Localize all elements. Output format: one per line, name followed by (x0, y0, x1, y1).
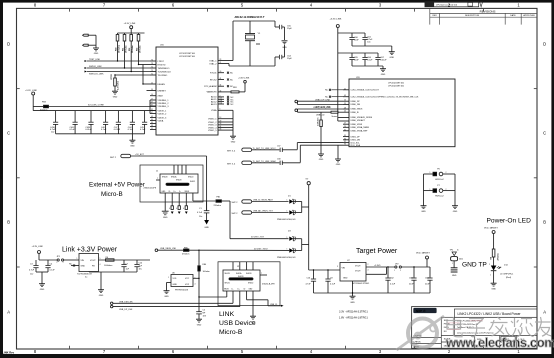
svg-text:57: 57 (151, 101, 153, 103)
svg-text:10uF: 10uF (354, 60, 359, 62)
svg-text:+3.3V_LINK: +3.3V_LINK (25, 90, 37, 92)
svg-text:78: 78 (151, 63, 153, 65)
svg-text:R51: R51 (122, 48, 124, 51)
svg-text:2: 2 (368, 264, 369, 266)
svg-text:RTC01: RTC01 (210, 73, 217, 75)
ferrite bead FB5 (182, 247, 199, 255)
svg-text:DATE: DATE (510, 14, 516, 17)
svg-text:VDDA: VDDA (158, 119, 164, 122)
svg-text:SHL2D: SHL2D (188, 177, 194, 179)
ferrite bead FB3 (33, 102, 48, 112)
wire 5V_EXT to diodes (230, 201, 289, 239)
svg-text:GND: GND (81, 266, 86, 268)
wire cap group2 top (338, 52, 378, 54)
svg-text:USB0_VSSA_REF: USB0_VSSA_REF (351, 130, 369, 133)
svg-text:Micro-B: Micro-B (219, 329, 243, 336)
svg-text:+3.3V_LINK: +3.3V_LINK (238, 77, 250, 79)
wire J2 ID (247, 291, 284, 307)
capacitor C60 (349, 33, 359, 46)
svg-text:28: 28 (344, 108, 346, 110)
svg-text:220ohm: 220ohm (214, 205, 222, 207)
svg-text:42: 42 (344, 88, 346, 90)
node USB DM/DP terminals (111, 301, 134, 311)
connector J2 outer shield (218, 262, 280, 306)
capacitor C10 (134, 260, 143, 272)
connector J1 (micro-B ext power) (140, 165, 203, 202)
capacitor C47 (114, 111, 121, 134)
ground p6p7 right (452, 206, 458, 213)
capacitor C44 (128, 111, 135, 134)
svg-text:2: 2 (489, 264, 490, 266)
svg-text:VDDREG_2: VDDREG_2 (158, 103, 170, 105)
crystal Y1 (249, 21, 251, 34)
capacitor C54 (275, 56, 279, 58)
svg-text:3: 3 (337, 266, 338, 268)
resistor R60 (series 0ohm) (331, 111, 343, 118)
svg-text:Micro-B: Micro-B (101, 191, 123, 198)
svg-text:USB0_VDDA3V_DRIVE: USB0_VDDA3V_DRIVE (351, 116, 373, 119)
svg-text:R53: R53 (136, 48, 138, 51)
svg-text:5011: 5011 (459, 259, 463, 261)
wire I2C0_SDA (300, 145, 343, 162)
svg-text:1: 1 (490, 275, 491, 277)
NC marks mcu2 clk pins (325, 89, 343, 99)
diode D4 (277, 248, 302, 258)
svg-text:22uF: 22uF (409, 283, 414, 285)
svg-text:PRTR5V0U2X: PRTR5V0U2X (175, 289, 189, 291)
svg-text:SHL31: SHL31 (190, 181, 195, 183)
off-page pill SHT 3,4 (scl) (227, 148, 280, 153)
wire TMS_LINK (85, 66, 151, 69)
svg-text:LPC4322JET100: LPC4322JET100 (179, 56, 196, 58)
wire DBGEN (143, 65, 150, 85)
svg-text:GND: GND (164, 296, 169, 298)
wire J2 gnd pin (252, 291, 254, 316)
svg-text:GND: GND (113, 96, 118, 98)
svg-text:USB_ID_VBUS_FAST: USB_ID_VBUS_FAST (253, 199, 274, 202)
ground i2c pulldown b (335, 145, 341, 166)
REVISIONS TABLE (425, 2, 537, 25)
node USB0 VBUS/ID terminals (295, 107, 343, 116)
svg-text:XTAL_2: XTAL_2 (209, 62, 217, 65)
capacitor C432 (70, 111, 78, 134)
svg-text:USB0_DM: USB0_DM (351, 104, 361, 106)
svg-text:USB0_VBUS: USB0_VBUS (351, 109, 363, 111)
svg-text:0.01uF: 0.01uF (85, 129, 92, 131)
svg-text:5V_EXT_TGT2: 5V_EXT_TGT2 (254, 248, 269, 250)
svg-text:LPC4322JET100: LPC4322JET100 (388, 83, 405, 85)
svg-text:VOUT: VOUT (355, 265, 361, 267)
svg-text:1000ohm: 1000ohm (104, 265, 113, 267)
capacitor C4 (45, 260, 55, 272)
svg-text:30: 30 (344, 129, 346, 131)
svg-text:GND: GND (40, 289, 45, 291)
svg-text:0.1uF: 0.1uF (101, 129, 107, 131)
svg-text:24: 24 (344, 111, 346, 113)
svg-text:(Red): (Red) (506, 277, 511, 279)
svg-text:15pF: 15pF (287, 58, 292, 60)
svg-text:17: 17 (151, 98, 153, 100)
svg-text:72: 72 (151, 66, 153, 68)
ground J1 shield (162, 211, 169, 219)
wire target gnd rail (314, 281, 431, 296)
svg-text:LTRST: LTRST (158, 61, 165, 63)
svg-text:+3.3V_LINK: +3.3V_LINK (32, 246, 44, 248)
wire u5 gnd rail (89, 272, 137, 290)
svg-text:SWDCLK_LINK: SWDCLK_LINK (89, 74, 104, 76)
text Power-On LED (487, 218, 532, 225)
svg-text:GND: GND (204, 227, 209, 229)
svg-text:0.1uF: 0.1uF (140, 129, 146, 131)
resistor R57 (TDO pulldown) (111, 73, 120, 91)
svg-text:SHT 2: SHT 2 (110, 157, 117, 159)
wire TCK_LINK (85, 71, 151, 76)
svg-text:B: B (7, 220, 10, 225)
text Link +3.3V Power (62, 247, 118, 254)
svg-text:1: 1 (430, 189, 431, 191)
svg-text:C: C (7, 131, 10, 136)
svg-text:NXP ⏻: NXP ⏻ (416, 309, 426, 313)
svg-text:VDDIO_1: VDDIO_1 (158, 110, 168, 112)
svg-text:98: 98 (220, 129, 222, 131)
svg-text:0.01uF: 0.01uF (114, 129, 121, 131)
svg-text:29: 29 (220, 120, 222, 122)
svg-text:USB1_DM: USB1_DM (351, 140, 361, 142)
resistor R53 (136, 33, 141, 65)
svg-text:PMEG4010CEH, HS: PMEG4010CEH, HS (277, 219, 296, 221)
esd U6 PRTR5V0U2X (167, 272, 196, 291)
ground R57 (112, 91, 118, 98)
svg-text:7: 7 (157, 178, 158, 180)
capacitor C64 (425, 267, 433, 293)
svg-text:VDDREG_1: VDDREG_1 (158, 100, 170, 102)
svg-text:59: 59 (151, 89, 153, 91)
svg-text:26: 26 (344, 100, 346, 102)
capacitor C430 (50, 111, 58, 134)
resistor R51 (122, 33, 127, 68)
wire xtal right leg (274, 21, 276, 27)
capacitor C57 (scl series) (277, 146, 297, 152)
capacitor C434 (85, 111, 93, 134)
svg-text:GND: GND (173, 284, 178, 286)
svg-text:USB_DP_LNK: USB_DP_LNK (119, 309, 133, 311)
wire +5V_EXT drop (206, 156, 208, 211)
wire cap bottom rail (56, 133, 145, 135)
svg-text:HDR-1x2: HDR-1x2 (435, 179, 444, 181)
svg-text:SHL2B: SHL2B (176, 180, 182, 182)
svg-text:GND: GND (231, 141, 236, 143)
svg-text:RB1: RB1 (233, 87, 237, 89)
svg-text:GND: GND (491, 288, 496, 290)
wire cap group2 bottom / ground (352, 66, 386, 76)
wire TDI_LINK (139, 64, 151, 66)
ground p6p7 left (421, 206, 427, 213)
svg-text:75: 75 (151, 70, 153, 72)
svg-text:84: 84 (151, 119, 153, 121)
svg-text:LINK: LINK (219, 311, 235, 318)
svg-text:1: 1 (287, 211, 288, 213)
svg-text:96: 96 (344, 138, 346, 140)
svg-text:+3.3V0: +3.3V0 (374, 265, 381, 267)
svg-text:www.elecfans.com: www.elecfans.com (445, 335, 554, 350)
svg-text:470ohm: 470ohm (182, 254, 190, 256)
svg-text:SHL30: SHL30 (248, 282, 253, 284)
regulator U5 TLV70033 (69, 251, 100, 278)
svg-text:TCK/SWDCLK: TCK/SWDCLK (158, 71, 172, 73)
svg-text:LD CHIP-HR-1: LD CHIP-HR-1 (500, 274, 514, 276)
capacitor C64a (375, 53, 387, 66)
svg-text:D+: D+ (238, 288, 240, 290)
capacitor C58 (sda series) (277, 159, 300, 165)
svg-text:4: 4 (100, 264, 101, 266)
svg-text:40: 40 (220, 71, 222, 73)
svg-text:45: 45 (220, 90, 222, 92)
svg-text:0.1uF: 0.1uF (50, 269, 56, 271)
ground u6 (164, 291, 170, 298)
svg-text:100ohm: 100ohm (203, 271, 211, 273)
svg-text:0.1uF: 0.1uF (390, 283, 396, 285)
svg-text:25: 25 (344, 103, 346, 105)
wire u7 vout2 (366, 267, 387, 274)
svg-text:USB0_DP_LINK: USB0_DP_LINK (315, 99, 331, 101)
svg-text:GND: GND (99, 295, 104, 297)
text Target Power (356, 248, 398, 255)
svg-text:ZX62D-B-5P8: ZX62D-B-5P8 (144, 188, 157, 190)
junction dots jtag (114, 60, 143, 84)
svg-text:LPC4322: LPC4322 (1, 169, 3, 179)
wire vdd pin tie (149, 100, 151, 114)
svg-text:AP2114H-3.3TRG1: AP2114H-3.3TRG1 (352, 282, 370, 285)
capacitor C1 (197, 208, 209, 220)
svg-text:NO: NO (444, 331, 447, 333)
wire I2C0_SCL (297, 143, 343, 150)
ground VSSIO (230, 136, 236, 143)
svg-text:GND: GND (421, 211, 426, 213)
svg-text:10v: 10v (199, 216, 202, 218)
svg-text:84: 84 (220, 126, 222, 128)
svg-text:R52: R52 (129, 48, 131, 51)
svg-text:TMS/SWDIO: TMS/SWDIO (158, 68, 170, 70)
svg-text:Target Power: Target Power (356, 248, 398, 255)
wire ext 5v to D4 (199, 248, 289, 250)
wire RESET (147, 90, 151, 92)
svg-text:0.1uF: 0.1uF (330, 283, 336, 285)
svg-text:USB0_VDDAVT: USB0_VDDAVT (351, 119, 366, 122)
svg-text:Power-On LED: Power-On LED (487, 218, 532, 225)
ground C5 (196, 319, 202, 326)
connector P7 HDR-1x2 (424, 185, 456, 197)
svg-text:44: 44 (220, 85, 222, 87)
svg-text:22: 22 (151, 128, 153, 130)
svg-text:TLV70033DDCR: TLV70033DDCR (77, 273, 92, 275)
svg-text:15: 15 (151, 82, 153, 84)
wire J2 vbus pin (199, 284, 227, 298)
connector P6 HDR-1x2 (424, 168, 456, 180)
svg-text:LPC4322JET100: LPC4322JET100 (179, 53, 196, 55)
wire cap group1 bottom / ground (352, 46, 395, 59)
jumper JP1 (57, 256, 80, 264)
www.elecfans.com outline text (445, 335, 554, 350)
svg-text:2.4 Kohm: 2.4 Kohm (117, 81, 120, 90)
resistor R52 (129, 33, 134, 72)
svg-text:RTDI/TD: RTDI/TD (158, 64, 167, 66)
svg-text:WAKEUP0: WAKEUP0 (207, 91, 218, 94)
svg-text:0.01uF: 0.01uF (380, 60, 387, 62)
svg-text:VDDIO_3: VDDIO_3 (158, 117, 168, 119)
pin stubs right (204, 59, 224, 132)
svg-text:SHT 3, 4: SHT 3, 4 (227, 163, 236, 165)
svg-text:94: 94 (151, 122, 153, 124)
svg-text:43: 43 (344, 95, 346, 97)
svg-text:71: 71 (151, 73, 153, 75)
svg-text:58: 58 (220, 123, 222, 125)
svg-text:GND: GND (163, 217, 168, 219)
svg-text:4.7uF: 4.7uF (29, 269, 35, 271)
wire c3c4 gnd (36, 272, 48, 284)
svg-text:92: 92 (344, 141, 346, 143)
svg-text:RTCX2: RTCX2 (210, 79, 218, 81)
svg-text:USB0_ID: USB0_ID (351, 112, 360, 114)
ferrite bead FB1 (214, 197, 231, 207)
ground u7 (350, 296, 356, 304)
svg-text:LPC4322JET100: LPC4322JET100 (388, 86, 405, 88)
svg-text:ZX62D-B-5P8: ZX62D-B-5P8 (262, 284, 275, 286)
svg-text:270ohm: 270ohm (497, 253, 499, 260)
svg-text:TL_SHT_TO_LINK_SCL2: TL_SHT_TO_LINK_SCL2 (253, 148, 277, 150)
svg-text:VSSIO_1: VSSIO_1 (208, 119, 217, 121)
svg-text:23: 23 (220, 59, 222, 61)
svg-text:ADC3: ADC3 (211, 103, 217, 106)
red tints on chars (448, 321, 483, 330)
svg-text:USB0_VSSF: USB0_VSSF (351, 124, 363, 126)
svg-text:2: 2 (295, 237, 296, 239)
capacitor C45 (140, 111, 147, 134)
svg-text:VOUT: VOUT (90, 260, 96, 262)
svg-text:2: 2 (295, 211, 296, 213)
ground caps (129, 134, 135, 148)
svg-text:GND: GND (130, 145, 135, 147)
capacitor C55 (275, 26, 279, 28)
svg-text:+5V_EXT: +5V_EXT (135, 154, 145, 156)
svg-text:GND: GND (452, 275, 457, 277)
WATERMARK elecfans (397, 316, 554, 350)
logo cell (413, 308, 436, 313)
svg-text:APPROVED: APPROVED (523, 14, 535, 17)
chinese char you (534, 317, 552, 336)
svg-text:76: 76 (151, 59, 153, 61)
svg-text:0.1uF: 0.1uF (367, 60, 373, 62)
ground tp1 (451, 268, 458, 277)
svg-text:+3.3V_LINK: +3.3V_LINK (124, 23, 136, 25)
wire u5 out (99, 259, 151, 261)
svg-text:27: 27 (344, 123, 346, 125)
svg-text:HDR-1x2: HDR-1x2 (435, 195, 444, 197)
svg-text:2: 2 (63, 262, 64, 264)
svg-text:RTC_ALARM: RTC_ALARM (204, 85, 217, 88)
LED D4 (489, 264, 514, 283)
node USB_VBUS_LNK terminal (155, 248, 183, 251)
diode D3 (287, 231, 302, 241)
ground C1 (arrow style) (204, 220, 209, 229)
small texts (444, 320, 483, 333)
resistor R48 (shield jumper) (169, 193, 174, 214)
svg-text:Link +3.3V Power: Link +3.3V Power (62, 247, 118, 254)
wire 5V to U7 (309, 269, 340, 271)
svg-text:VDD_TARGET: VDD_TARGET (416, 252, 431, 255)
wire p6/p7 left leg (423, 174, 425, 206)
grid lines (440, 317, 442, 348)
text GND TP (462, 262, 487, 269)
svg-text:R8: R8 (491, 257, 493, 259)
resistor R58 (wakeup pullup) (224, 87, 245, 93)
resistor R8 (491, 249, 500, 266)
off-page pill SHT 2 (vbus det 2) (232, 210, 289, 216)
off-page pill SHT 3,4 (sda) (227, 160, 280, 166)
wire XTAL1 (224, 60, 233, 62)
svg-text:1: 1 (77, 258, 78, 260)
ground xtal (284, 27, 286, 40)
wire d3d4 output (302, 239, 309, 251)
svg-text:13: 13 (220, 117, 222, 119)
svg-text:VDDIO_2: VDDIO_2 (158, 113, 168, 115)
off-page pill SHT 2 (vbus det 1) (232, 199, 289, 205)
chinese char fa (489, 317, 510, 336)
node 5V (306, 179, 311, 270)
title cell (454, 309, 537, 317)
svg-text:GND: GND (336, 164, 341, 166)
wire VSSIO bus (224, 110, 233, 136)
svg-text:SWDIO_LINK: SWDIO_LINK (89, 66, 102, 68)
chinese char shao (511, 318, 534, 337)
resistor R50 (115, 33, 120, 61)
wire ldo out rail (39, 259, 57, 261)
svg-text:1: 1 (287, 200, 288, 202)
svg-text:29: 29 (344, 126, 346, 128)
wire d1d2 output (302, 202, 309, 213)
svg-text:47: 47 (151, 112, 153, 114)
wire 3v3_LNK_CORE (49, 104, 157, 106)
capacitor C40 (101, 111, 108, 134)
svg-text:SHL2B: SHL2B (246, 273, 252, 275)
svg-text:4.7uF: 4.7uF (306, 283, 312, 285)
resistor R50 (shield jumper) (183, 193, 188, 214)
capacitor C62 (385, 266, 395, 293)
svg-text:GND: GND (282, 47, 287, 49)
svg-text:1: 1 (57, 262, 58, 264)
node +3.3V_LINK (wakeup) (238, 77, 250, 92)
svg-text:USB0_DP: USB0_DP (351, 101, 361, 103)
svg-text:10uF: 10uF (354, 40, 359, 42)
svg-text:2: 2 (400, 270, 401, 272)
jumper JP2 (394, 264, 430, 272)
svg-text:+3.3V_LINK: +3.3V_LINK (330, 19, 342, 21)
svg-text:SHL2A: SHL2A (236, 272, 242, 275)
svg-text:USB0_VSSA_TARM: USB0_VSSA_TARM (351, 126, 370, 129)
svg-text:0: 0 (183, 208, 184, 210)
svg-text:10 Kohm: 10 Kohm (139, 45, 141, 53)
svg-text:USB0_ID: USB0_ID (316, 114, 325, 116)
svg-text:USB_VBUS_LNK: USB_VBUS_LNK (160, 248, 177, 250)
svg-text:GND: GND (319, 159, 324, 161)
ground u5 (98, 290, 104, 297)
capacitor C66b (306, 269, 317, 293)
ground J2 (250, 316, 256, 323)
svg-text:1: 1 (452, 263, 453, 265)
svg-text:5V_EXT_TGT: 5V_EXT_TGT (251, 237, 265, 239)
svg-text:GND: GND (350, 302, 355, 304)
capacitor C5 (196, 296, 207, 319)
capacitor C62a (349, 53, 359, 66)
